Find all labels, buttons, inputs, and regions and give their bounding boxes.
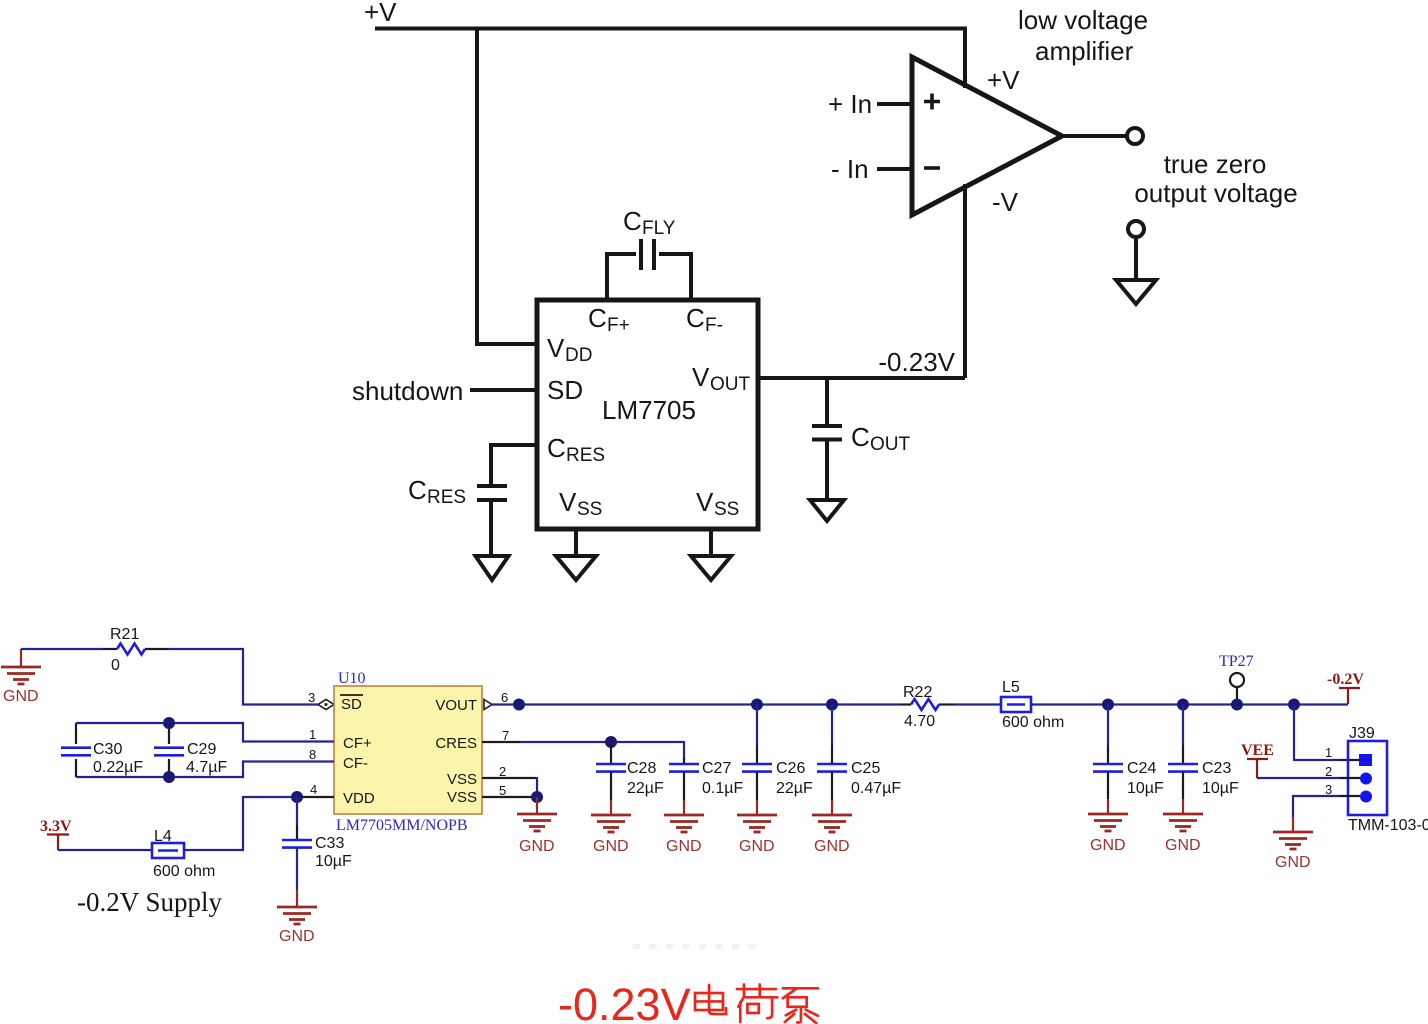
ground arrow CRES [476,556,509,580]
svg-text:GND: GND [666,838,702,855]
ground GND C26 [737,815,777,855]
wire +V stub into op-amp [963,27,967,89]
node junction dot C29 top [163,717,175,729]
pin 2 number [499,764,506,779]
svg-text:10µF: 10µF [315,853,352,870]
pin 4 number [310,782,317,797]
ground arrow VSS1 [556,556,596,580]
svg-text:+V: +V [364,0,397,27]
pin 1 number [309,727,316,742]
svg-text:+ In: + In [828,89,872,119]
node junction dot C24 [1102,699,1114,711]
node junction dot VDD [291,791,303,803]
svg-text:GND: GND [279,928,315,945]
svg-text:7: 7 [502,728,509,743]
wire shutdown to SD pin [470,388,537,392]
svg-text:low voltage: low voltage [1018,5,1148,35]
svg-text:TP27: TP27 [1219,653,1254,670]
svg-text:C: C [408,475,427,505]
svg-text:1: 1 [1325,745,1332,760]
svg-text:shutdown: shutdown [352,376,463,406]
label low voltage amplifier [1018,5,1148,66]
svg-text:C: C [547,433,566,463]
svg-text:- In: - In [831,154,869,184]
ground arrow VSS2 [691,556,731,580]
wire VEE to J39 pin 2 [1257,777,1360,779]
svg-text:L4: L4 [154,828,172,845]
ground GND C33 [277,907,317,945]
svg-text:J39: J39 [1349,725,1375,742]
svg-text:V: V [547,333,565,363]
svg-text:V: V [696,487,714,517]
wire left vertical rail to VDD [477,29,536,345]
wire VSS pin 2 [482,777,537,793]
ground GND VSS [517,797,557,855]
capacitor C26 [742,704,813,797]
svg-text:GND: GND [1090,837,1126,854]
wire C24 to ground [1107,772,1109,814]
svg-text:C30: C30 [93,741,122,758]
node junction dot TP27 [1231,699,1243,711]
wire VSS pin 5 [482,796,533,798]
power VEE supply [1241,742,1274,778]
svg-text:SD: SD [547,375,583,405]
svg-text:V: V [559,487,577,517]
svg-text:LM7705: LM7705 [602,395,696,425]
wire CF+ rail pin 1 [76,723,334,742]
wire CF- rail pin 8 [76,762,334,778]
wire C23 to ground [1182,772,1184,814]
wire terminal to ground [1134,237,1138,280]
capacitor CFLY [607,239,691,270]
pin 2 number J39 [1325,764,1332,779]
svg-text:VSS: VSS [447,771,477,788]
node - In input label [831,154,869,184]
svg-text:22µF: 22µF [627,780,664,797]
svg-text:OUT: OUT [870,434,911,455]
wire CRES pin 7 [482,742,684,760]
svg-text:-0.2V Supply: -0.2V Supply [77,887,223,917]
pin 5 number [499,783,506,798]
svg-text:VEE: VEE [1241,742,1274,759]
ground GND C23 [1163,814,1203,854]
svg-text:R21: R21 [110,626,139,643]
node junction dot VSS [531,791,543,803]
svg-text:C: C [623,206,642,236]
wire ground to J39 pin 3 [1293,796,1360,832]
svg-text:VOUT: VOUT [435,697,477,714]
svg-text:3: 3 [1325,782,1332,797]
capacitor C28 [596,742,664,797]
svg-text:C33: C33 [315,835,344,852]
wire 3.3V to L4 [58,849,152,851]
svg-text:TMM-103-01: TMM-103-01 [1348,817,1428,834]
svg-text:GND: GND [814,838,850,855]
svg-text:600 ohm: 600 ohm [153,863,215,880]
capacitor C27 [669,758,743,797]
svg-text:6: 6 [501,690,508,705]
svg-text:R22: R22 [903,684,932,701]
capacitor CRES label [408,475,466,508]
svg-text:LM7705MM/NOPB: LM7705MM/NOPB [336,817,468,834]
svg-text:amplifier: amplifier [1035,36,1134,66]
svg-text:CRES: CRES [435,735,477,752]
wire COUT stub [825,378,829,424]
label -0.23V net [878,347,955,377]
svg-text:C23: C23 [1202,760,1231,777]
wire L4 to VDD pin 4 [184,797,334,850]
node junction dot C26 [751,699,763,711]
capacitor C23 [1168,704,1239,797]
svg-text:-0.23V: -0.23V [878,347,955,377]
svg-text:-0.2V: -0.2V [1327,671,1364,688]
wire C28 to ground [610,772,612,815]
ground arrow under output terminal [1116,280,1156,304]
wire -V stub down to VOUT net [963,184,967,378]
wire C33 to ground [296,848,298,907]
wire COUT to ground [825,442,829,501]
ground GND C28 [591,815,631,855]
svg-text:3.3V: 3.3V [40,818,72,835]
capacitor COUT [812,426,842,440]
capacitor COUT label [851,422,911,455]
svg-text:C25: C25 [851,760,880,777]
svg-text:4.7µF: 4.7µF [186,759,227,776]
svg-text:10µF: 10µF [1127,780,1164,797]
port wedge SD input [318,700,334,710]
wire R22 to L5 [939,703,1001,705]
svg-text:C: C [686,303,705,333]
svg-text:1: 1 [309,727,316,742]
svg-text:C24: C24 [1127,760,1156,777]
svg-text:3: 3 [308,690,315,705]
pin 8 number [309,747,316,762]
svg-text:0.1µF: 0.1µF [702,780,743,797]
svg-text:U10: U10 [338,670,366,687]
wire GND1 to R21 [21,648,117,650]
svg-text:GND: GND [1275,854,1311,871]
svg-text:SS: SS [714,499,739,520]
node junction dot J39 branch [1288,699,1300,711]
svg-text:VDD: VDD [343,790,375,807]
ground arrow COUT [810,500,844,521]
wire CRES pin [491,445,537,484]
svg-text:0: 0 [111,657,120,674]
wire CRES to ground [489,502,493,556]
svg-text:GND: GND [519,838,555,855]
node ground terminal circle [1128,221,1144,237]
wire CFLY left stub [605,252,609,298]
wire - In [877,167,912,171]
svg-text:DD: DD [565,345,592,366]
svg-text:8: 8 [309,747,316,762]
IC U10 LM7705MM/NOPB [334,670,482,834]
wire C26 to ground [756,772,758,815]
wire + In [877,102,912,106]
wire VSS1 stub [574,531,578,556]
node output terminal circle [1127,128,1143,144]
inductor L5 [1001,679,1064,731]
node junction dot C23 [1177,699,1189,711]
svg-text:SD: SD [341,696,362,713]
svg-text:4: 4 [310,782,317,797]
svg-text:RES: RES [566,445,605,466]
pin 3 number [308,690,315,705]
svg-text:OUT: OUT [710,374,751,395]
svg-text:RES: RES [427,487,466,508]
svg-text:10µF: 10µF [1202,780,1239,797]
pin 3 number J39 [1325,782,1332,797]
svg-text:GND: GND [3,688,39,705]
wire VOUT net [758,376,965,380]
label +V op-amp supply [987,65,1020,95]
capacitor C24 [1093,704,1164,797]
svg-text:2: 2 [1325,764,1332,779]
svg-text:C: C [588,303,607,333]
svg-text:0.22µF: 0.22µF [93,759,143,776]
wire VSS2 stub [709,531,713,556]
wire to J39 pin 1 [1294,704,1360,760]
svg-text:-V: -V [992,187,1019,217]
op-amp U1 low voltage amplifier [912,57,1062,215]
svg-text:GND: GND [1165,837,1201,854]
capacitor C30 [61,723,143,777]
wire VOUT net [492,703,911,705]
caption -0.23V charge pump [558,979,818,1024]
resistor R21 [110,626,145,674]
capacitor C29 [154,723,227,777]
label true zero output voltage [1134,149,1297,208]
ground GND C24 [1088,814,1128,854]
node junction dot CRES [605,736,617,748]
wire C27 to ground [683,772,685,815]
pin 1 number J39 [1325,745,1332,760]
svg-text:+V: +V [987,65,1020,95]
svg-text:600 ohm: 600 ohm [1002,714,1064,731]
svg-text:-0.23V: -0.23V [558,979,691,1024]
connector J39 [1348,725,1428,834]
capacitor CRES [477,486,507,500]
svg-text:GND: GND [739,838,775,855]
ground GND C27 [664,815,704,855]
svg-text:F-: F- [705,315,723,336]
svg-text:L5: L5 [1002,679,1020,696]
wire +V top rail [375,27,965,31]
node junction dot C29 bottom [163,771,175,783]
svg-text:CF+: CF+ [343,735,372,752]
svg-text:SS: SS [577,499,602,520]
power 3.3V supply [40,818,72,850]
svg-text:FLY: FLY [642,218,676,239]
wire L5 to -0.2V [1031,703,1348,705]
svg-text:true zero: true zero [1164,149,1267,179]
ground GND1 top-left [1,649,41,705]
svg-text:5: 5 [499,783,506,798]
capacitor C25 [817,704,901,797]
pin 7 number [502,728,509,743]
inductor L4 [152,828,215,880]
svg-text:F+: F+ [607,315,630,336]
svg-text:2: 2 [499,764,506,779]
svg-text:4.70: 4.70 [904,713,935,730]
svg-text:22µF: 22µF [776,780,813,797]
svg-text:output voltage: output voltage [1134,178,1297,208]
svg-text:0.47µF: 0.47µF [851,780,901,797]
wire op-amp output [1062,134,1126,138]
wire C25 to ground [831,772,833,815]
node +V supply rail label [364,0,397,27]
wire CFLY right stub [689,252,693,298]
svg-text:C: C [851,422,870,452]
svg-text:C26: C26 [776,760,805,777]
power -0.2V supply [1327,671,1364,704]
label shutdown [352,376,463,406]
wire R21 to SD pin 3 [145,649,318,705]
svg-text:GND: GND [593,838,629,855]
IC LM7705 block [537,300,758,529]
label -V op-amp supply [992,187,1019,217]
ground GND J39 [1273,832,1313,871]
testpoint TP27 [1219,653,1254,704]
label -0.2V Supply [77,887,223,917]
svg-text:C28: C28 [627,760,656,777]
capacitor CFLY label [623,206,676,239]
svg-text:C27: C27 [702,760,731,777]
ground GND C25 [812,815,852,855]
port wedge VOUT output [484,700,492,710]
capacitor C33 [282,797,352,870]
node junction dot VOUT [513,699,525,711]
svg-text:CF-: CF- [343,755,368,772]
resistor R22 [903,684,939,730]
svg-text:C29: C29 [187,741,216,758]
svg-text:VSS: VSS [447,789,477,806]
wire faint watermark dashes [633,944,764,949]
pin 6 number [501,690,508,705]
node junction dot C25 [826,699,838,711]
svg-text:V: V [692,362,710,392]
node + In input label [828,89,872,119]
